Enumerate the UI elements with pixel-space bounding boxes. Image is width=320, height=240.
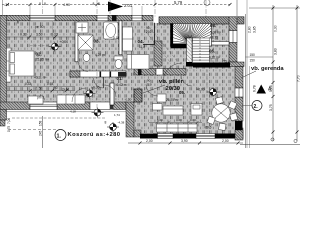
wardrobe 04 bbox=[123, 27, 133, 51]
level marker 05 bbox=[207, 87, 219, 97]
wall seg hall-south bbox=[134, 69, 186, 76]
svg-text:pm 5: pm 5 bbox=[37, 96, 44, 100]
axis line E bbox=[205, 0, 207, 17]
dashed line bottom-left bbox=[8, 129, 58, 131]
room area mid lower strip bbox=[126, 102, 153, 133]
svg-text:1.50: 1.50 bbox=[36, 87, 42, 91]
svg-text:210: 210 bbox=[147, 83, 152, 87]
partition right of 01 bbox=[110, 83, 114, 105]
svg-text:3,83: 3,83 bbox=[274, 48, 278, 55]
axis dashed kitchen bbox=[206, 70, 208, 133]
stair fan lines bbox=[171, 24, 211, 43]
partition 03|04 bbox=[119, 21, 122, 55]
wall: bottom-right hatch corner bbox=[236, 128, 243, 139]
terrace edge line bbox=[3, 111, 126, 113]
svg-text:01.: 01. bbox=[117, 76, 123, 81]
door arc 06 bbox=[181, 75, 192, 86]
stair treads down flight bbox=[193, 38, 210, 63]
window W5 bottom bbox=[158, 134, 174, 139]
dashed line koszoru bbox=[12, 117, 106, 119]
svg-text:vb. pillér: vb. pillér bbox=[159, 79, 184, 85]
svg-text:1,74: 1,74 bbox=[114, 113, 120, 117]
svg-text:08.: 08. bbox=[210, 23, 216, 28]
svg-text:0,75: 0,75 bbox=[7, 126, 11, 132]
svg-text:5.00: 5.00 bbox=[157, 118, 163, 122]
dim line win02 bbox=[7, 36, 75, 38]
door arc hall-05 bbox=[146, 84, 158, 96]
svg-text:+0,00: +0,00 bbox=[60, 40, 69, 44]
wall: bottom-left exterior bbox=[0, 102, 126, 110]
svg-text:2,80: 2,80 bbox=[248, 26, 252, 33]
svg-text:5,08 m²: 5,08 m² bbox=[210, 31, 221, 35]
closet corner wall v bbox=[154, 23, 156, 45]
north arrow triangle bbox=[108, 2, 123, 12]
svg-text:8: 8 bbox=[39, 2, 41, 6]
furniture desk 02 bbox=[28, 96, 43, 104]
svg-text:0.33: 0.33 bbox=[25, 82, 31, 86]
door jamb stub bbox=[110, 102, 113, 110]
svg-text:Koszorú as:+280: Koszorú as:+280 bbox=[68, 132, 121, 138]
axis line C bbox=[109, 0, 111, 16]
stair black bottom bar fan bbox=[171, 44, 192, 49]
chair W bbox=[207, 116, 215, 124]
interior wall under 03/04 bbox=[70, 71, 126, 77]
closet strip left wall bbox=[7, 48, 12, 82]
small circle o8 b bbox=[294, 139, 297, 142]
wall junction black hall-south bbox=[138, 69, 142, 76]
svg-text:06.: 06. bbox=[209, 49, 215, 54]
svg-text:5,26: 5,26 bbox=[269, 85, 273, 92]
leader vb piller bbox=[143, 85, 165, 93]
svg-text:0,30: 0,30 bbox=[274, 25, 278, 32]
wall: step horizontal bbox=[228, 62, 244, 67]
toilet 03 bbox=[114, 56, 123, 69]
stairwell box bbox=[171, 24, 212, 47]
door leaf wall01 bbox=[103, 77, 105, 88]
svg-text:0,20: 0,20 bbox=[126, 98, 132, 102]
window W2 top bbox=[97, 15, 108, 20]
wire: top dim dashed line bbox=[2, 4, 108, 6]
closet corner wall h bbox=[143, 44, 155, 46]
partition 02|03 bbox=[75, 21, 78, 62]
svg-text:18,75: 18,75 bbox=[210, 36, 218, 40]
svg-text:3,85: 3,85 bbox=[253, 26, 257, 33]
bathtub 03 bbox=[104, 22, 119, 39]
svg-text:/75: /75 bbox=[223, 60, 228, 64]
svg-text:±0,00: ±0,00 bbox=[91, 86, 100, 90]
left edge dim line bbox=[2, 0, 4, 15]
furniture bed 02 bbox=[9, 51, 34, 76]
wall: bottom-mid corner bbox=[134, 130, 141, 137]
right vertical line eaves2 bbox=[246, 0, 248, 148]
svg-text:2,00: 2,00 bbox=[146, 139, 153, 143]
room area left apartment (02,03,04,01) bbox=[7, 21, 154, 102]
wall: top stair (thick) bbox=[159, 17, 244, 24]
svg-text:11,8: 11,8 bbox=[139, 45, 145, 49]
kitchen counter b bbox=[163, 106, 183, 115]
column vb piller bbox=[134, 89, 142, 102]
sink 03 bbox=[83, 54, 90, 62]
dim line right far bbox=[296, 5, 298, 141]
furniture sofa 02 bbox=[57, 95, 85, 104]
svg-text:0.33: 0.33 bbox=[20, 33, 27, 37]
svg-text:Ø9,6: Ø9,6 bbox=[205, 126, 212, 130]
sofa 05 bbox=[157, 94, 166, 102]
svg-text:2.: 2. bbox=[254, 104, 259, 110]
bed 04 bbox=[127, 55, 149, 70]
wall corner return bottom-left bbox=[0, 120, 5, 126]
svg-text:-4,38: -4,38 bbox=[118, 121, 125, 125]
svg-text:6,42 m²: 6,42 m² bbox=[117, 83, 128, 87]
svg-text:3,90: 3,90 bbox=[181, 139, 188, 143]
svg-text:45: 45 bbox=[16, 20, 20, 24]
partition 04|hall hatch bbox=[154, 41, 162, 66]
wall: right lower exterior bbox=[235, 67, 243, 141]
svg-text:150: 150 bbox=[250, 59, 256, 63]
door arc stair hall bbox=[163, 63, 182, 82]
circle 1 bbox=[55, 130, 66, 141]
window jamb lines bbox=[30, 5, 142, 16]
leader vb gerenda bbox=[241, 71, 256, 78]
tick right lines bbox=[272, 7, 299, 134]
door arc room02 bbox=[79, 62, 89, 72]
wire: top dim dashed line stair bbox=[160, 4, 232, 6]
wall: right upper exterior bbox=[229, 17, 237, 62]
svg-text:26,25 m²: 26,25 m² bbox=[166, 98, 179, 102]
kitchen counter a bbox=[153, 104, 163, 111]
svg-text:02.: 02. bbox=[36, 52, 42, 57]
svg-text:pe 90: pe 90 bbox=[35, 25, 44, 29]
level marker 02 bbox=[49, 42, 61, 52]
svg-text:8: 8 bbox=[98, 2, 100, 6]
door gap bottom wall bbox=[90, 102, 110, 110]
svg-text:3.00: 3.00 bbox=[176, 118, 182, 122]
level marker hall A bbox=[92, 108, 104, 118]
chair N bbox=[215, 97, 223, 104]
svg-text:1.50: 1.50 bbox=[36, 33, 43, 37]
svg-text:8: 8 bbox=[105, 121, 107, 125]
window W6 bottom bbox=[196, 134, 215, 139]
svg-text:04.: 04. bbox=[138, 39, 144, 44]
svg-text:0,15: 0,15 bbox=[113, 36, 119, 40]
right vertical line top bbox=[236, 0, 238, 16]
axis line D bbox=[154, 0, 156, 17]
bottom-left dim vertical line bbox=[42, 116, 44, 148]
bottom right horizontal line bbox=[240, 144, 300, 146]
dashed leader room02 bbox=[30, 45, 49, 47]
svg-text:4,18: 4,18 bbox=[70, 110, 76, 114]
svg-text:2,00: 2,00 bbox=[222, 139, 229, 143]
stair spine wall bbox=[187, 38, 193, 63]
axis dashed corridor bbox=[96, 72, 98, 108]
dim tick line 150 bbox=[246, 56, 274, 58]
window jamb lines into room bbox=[29, 21, 31, 37]
wall: top exterior (left apt) bbox=[0, 15, 153, 20]
svg-text:158: 158 bbox=[39, 120, 43, 126]
stair walking line bbox=[199, 38, 201, 61]
wall: mid vertical bbox=[126, 102, 134, 137]
svg-text:5.79: 5.79 bbox=[174, 0, 183, 5]
chair S bbox=[219, 123, 227, 131]
chair NE bbox=[228, 101, 237, 110]
window W7 right wall bbox=[235, 88, 243, 97]
stair spine black cap bbox=[186, 62, 193, 67]
level marker B bbox=[107, 122, 119, 132]
shower 03 bbox=[78, 35, 93, 50]
grid bubble E bbox=[204, 0, 210, 6]
kitchen counter sink bbox=[191, 104, 202, 116]
wall junction black top bbox=[112, 15, 117, 21]
room area stair hall + rooms 05 06 08 bbox=[153, 23, 229, 134]
axis line A bbox=[42, 0, 44, 16]
svg-text:20/30: 20/30 bbox=[166, 86, 181, 92]
svg-text:40,11 m²: 40,11 m² bbox=[34, 76, 46, 80]
wall black bar S3 bbox=[215, 134, 236, 139]
window W1 top bbox=[30, 15, 55, 20]
window W4 bottom-left bbox=[30, 102, 57, 110]
chair E bbox=[230, 113, 238, 121]
svg-text:0.33: 0.33 bbox=[51, 33, 58, 37]
svg-text:150: 150 bbox=[250, 53, 256, 57]
svg-text:4.90: 4.90 bbox=[63, 3, 70, 7]
washing machine 03 bbox=[76, 22, 88, 33]
door arc bottom wall bbox=[72, 88, 86, 102]
room area right strip below step wall bbox=[229, 66, 236, 134]
svg-text:0.00: 0.00 bbox=[190, 118, 196, 122]
axis line B bbox=[96, 0, 98, 16]
svg-text:+0,00: +0,00 bbox=[197, 88, 205, 92]
wall black window right bbox=[235, 121, 243, 130]
svg-text:8: 8 bbox=[93, 2, 95, 6]
kitchen dim line bbox=[149, 122, 202, 124]
right vertical line eaves1 bbox=[245, 14, 247, 148]
interior wall hatch seg bbox=[70, 71, 80, 77]
stair black bottom bar bbox=[193, 63, 230, 68]
wall black bar S2 bbox=[173, 134, 196, 139]
svg-text:4,29 m²: 4,29 m² bbox=[95, 53, 106, 57]
circle 2 bbox=[242, 101, 262, 111]
window right upper wall bbox=[229, 31, 237, 43]
door arc bath bbox=[94, 78, 104, 88]
svg-text:90: 90 bbox=[54, 86, 58, 90]
stair pivot circle bbox=[189, 41, 192, 44]
bottom dim line bbox=[128, 142, 243, 144]
wall: left exterior bbox=[0, 15, 7, 120]
tick marks top bbox=[6, 3, 232, 6]
svg-text:3,75: 3,75 bbox=[269, 104, 273, 111]
window W3 top bbox=[132, 15, 142, 20]
wall black bar S1 bbox=[140, 134, 158, 139]
cabinet row 2 bbox=[157, 124, 198, 132]
door arc room01 bbox=[104, 85, 116, 97]
svg-text:0.93: 0.93 bbox=[47, 82, 53, 86]
svg-text:03.: 03. bbox=[94, 39, 100, 44]
svg-text:25,35 m²: 25,35 m² bbox=[36, 58, 50, 62]
small circle o8 a bbox=[271, 138, 274, 141]
svg-text:245: 245 bbox=[39, 130, 43, 136]
dim line top right bbox=[249, 7, 300, 9]
dim line right mid bbox=[272, 5, 274, 141]
svg-text:2.01: 2.01 bbox=[124, 3, 133, 8]
svg-text:8: 8 bbox=[44, 2, 46, 6]
hall diagonal dashes bbox=[150, 28, 178, 62]
svg-text:210: 210 bbox=[146, 30, 152, 34]
door jambs wall01 bbox=[100, 72, 102, 78]
stair dashed line right bbox=[212, 24, 214, 62]
svg-text:6,78: 6,78 bbox=[253, 85, 257, 92]
interior wall dark bar bbox=[118, 72, 126, 77]
svg-text:6,32 m²: 6,32 m² bbox=[209, 56, 220, 60]
level marker 01 bbox=[83, 88, 95, 98]
dining table bbox=[212, 104, 230, 122]
partition 08|06 bbox=[210, 42, 230, 46]
stair left wall black bbox=[171, 24, 174, 49]
svg-text:1.: 1. bbox=[57, 134, 62, 140]
svg-text:7,70: 7,70 bbox=[297, 75, 301, 82]
section triangle A bbox=[257, 85, 267, 94]
svg-text:7,06: 7,06 bbox=[7, 118, 11, 124]
